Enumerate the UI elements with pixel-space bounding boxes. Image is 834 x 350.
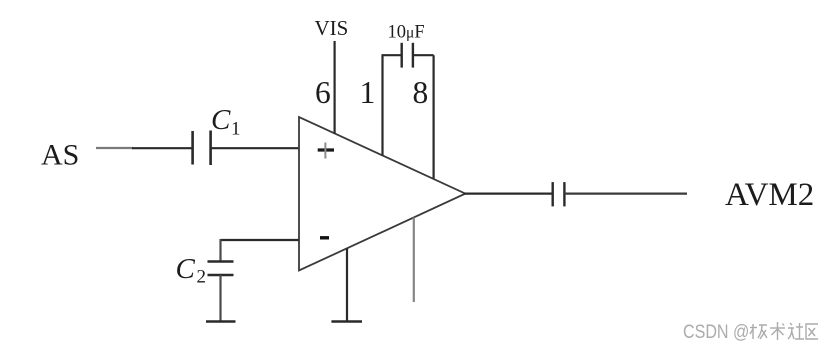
svg-text:CSDN @: CSDN @ xyxy=(683,321,749,343)
wire AS lead (gray segment) xyxy=(96,147,133,149)
svg-text:C: C xyxy=(176,253,196,285)
svg-text:VIS: VIS xyxy=(315,16,349,40)
label C1 xyxy=(211,104,241,140)
wire AS to C1 xyxy=(132,147,192,149)
svg-text:2: 2 xyxy=(197,267,207,288)
capacitor 10uF xyxy=(402,43,413,68)
wire C1 to op-amp + input xyxy=(211,147,299,149)
wire coupling cap to AVM2 xyxy=(564,193,687,195)
wire loop right segment xyxy=(413,54,434,56)
watermark glyph 极 xyxy=(750,324,767,339)
capacitor C2 xyxy=(208,262,234,276)
wire op-amp bottom to ground xyxy=(346,248,348,321)
pin number 8 xyxy=(413,75,429,110)
svg-text:6: 6 xyxy=(315,75,331,110)
svg-text:8: 8 xyxy=(413,75,429,110)
wire pin 8 down to op-amp xyxy=(433,55,435,178)
svg-text:AS: AS xyxy=(41,139,79,172)
node AS label xyxy=(41,139,79,172)
wire pin 1 up to bypass loop xyxy=(381,55,383,155)
wire - input xyxy=(221,239,300,241)
watermark glyph 术 xyxy=(770,322,785,340)
svg-text:1: 1 xyxy=(360,75,376,110)
capacitor C1 xyxy=(193,131,211,166)
svg-text:1: 1 xyxy=(231,119,241,140)
wire VIS to pin 6 xyxy=(334,41,336,134)
pin number 1 xyxy=(360,75,376,110)
wire loop left segment to 10uF xyxy=(382,54,402,56)
watermark glyph 社 xyxy=(788,323,804,339)
ground (op-amp) xyxy=(331,320,362,323)
op-amp U1 triangle xyxy=(299,117,465,271)
svg-text:C: C xyxy=(211,104,231,136)
label VIS xyxy=(315,16,349,40)
wire C2 to ground xyxy=(219,275,221,321)
op-amp - symbol xyxy=(320,236,329,239)
svg-text:10μF: 10μF xyxy=(388,23,425,43)
node AVM2 label xyxy=(725,177,814,213)
watermark CSDN @ xyxy=(683,321,749,343)
watermark glyph 区 xyxy=(806,324,818,339)
wire op-amp stub (gray, unterminated) xyxy=(413,218,415,303)
svg-text:AVM2: AVM2 xyxy=(725,177,814,213)
wire - input down to C2 xyxy=(219,239,221,261)
value label 10uF xyxy=(388,23,425,43)
op-amp + symbol xyxy=(318,143,334,159)
pin number 6 xyxy=(315,75,331,110)
wire output to coupling cap xyxy=(464,193,552,195)
label C2 xyxy=(176,253,207,288)
capacitor output coupling xyxy=(553,182,565,206)
ground (C2) xyxy=(206,320,236,323)
